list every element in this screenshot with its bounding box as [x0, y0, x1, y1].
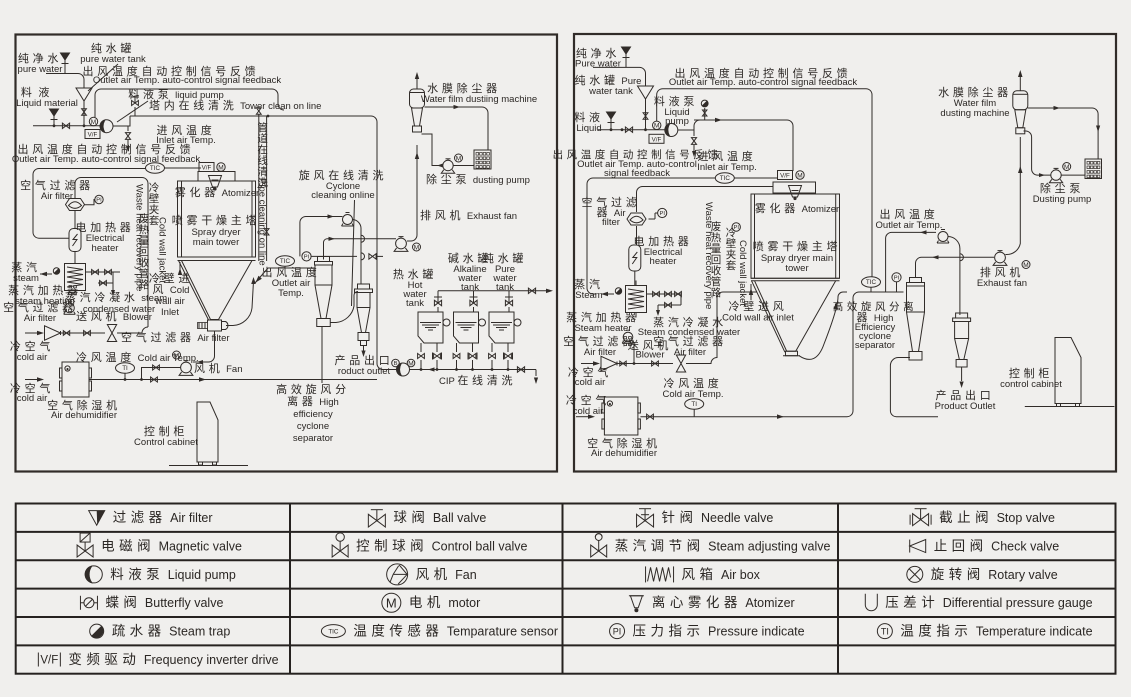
right: atomizer housing	[773, 182, 816, 193]
left diagram frame	[16, 35, 558, 472]
right: TIC	[715, 173, 734, 183]
svg-text:tank: tank	[496, 282, 514, 293]
left: outlet duct to cyclone	[268, 267, 315, 269]
legend: stop valve symbol	[913, 514, 929, 526]
svg-text:温度传感器 Temparature sensor: 温度传感器 Temparature sensor	[353, 623, 558, 639]
svg-text:冷空气: 冷空气	[566, 393, 610, 407]
legend: motor symbol	[382, 593, 401, 612]
legend table frame	[16, 504, 1116, 674]
left: wire pure water to tank	[46, 74, 84, 89]
left: spray tower walls	[178, 181, 256, 257]
left: small cyclone 2	[358, 284, 370, 289]
svg-text:M: M	[1064, 164, 1069, 171]
svg-text:Pipe cleaning on line: Pipe cleaning on line	[257, 178, 268, 266]
svg-text:M: M	[414, 244, 419, 251]
svg-text:Steam heater: Steam heater	[574, 323, 631, 334]
svg-text:roduct outlet: roduct outlet	[338, 366, 391, 377]
right: main feed line	[598, 129, 665, 131]
right: feedback wire to TIC right	[657, 89, 872, 277]
legend: temperature sensor symbol	[321, 625, 345, 638]
svg-text:料液泵: 料液泵	[654, 94, 698, 108]
right: inlet cone filter	[601, 356, 617, 370]
left: cyclone2 lower valve	[361, 341, 367, 346]
right: air line to jacket riser	[686, 292, 757, 364]
left: cleaning pump wires	[300, 217, 343, 257]
left: big cyclone outlet curve to cyclone2	[330, 291, 358, 322]
left: air line to tower riser	[117, 327, 148, 333]
svg-text:排风机 Exhaust fan: 排风机 Exhaust fan	[420, 208, 517, 222]
legend: fan symbol	[387, 564, 408, 585]
svg-text:水膜除尘器: 水膜除尘器	[938, 85, 1012, 99]
svg-text:冷壁进: 冷壁进	[149, 271, 193, 285]
left: steam arrow	[40, 272, 47, 276]
svg-text:pump: pump	[665, 116, 689, 127]
svg-text:TI: TI	[881, 627, 889, 637]
legend: check valve symbol	[909, 540, 911, 553]
svg-text:Air dehumidifier: Air dehumidifier	[51, 410, 117, 421]
svg-text:出风温度: 出风温度	[262, 265, 321, 279]
right: control cabinet	[1055, 338, 1081, 404]
svg-text:冷风温度: 冷风温度	[664, 376, 723, 390]
svg-text:●: ●	[608, 402, 611, 408]
left: blower bowtie	[107, 324, 116, 341]
svg-text:efficiency: efficiency	[293, 409, 333, 420]
left: tower clean line	[130, 116, 383, 370]
right: water film to dust box	[1028, 108, 1098, 159]
right: cleaning pump to cyclone2	[948, 237, 960, 316]
svg-text:M: M	[797, 172, 802, 179]
svg-text:电机 motor: 电机 motor	[409, 595, 480, 610]
svg-text:风机 Fan: 风机 Fan	[416, 567, 477, 582]
svg-text:TIC: TIC	[720, 175, 731, 182]
svg-text:水膜除尘器: 水膜除尘器	[427, 81, 501, 95]
left: leader liquid pump	[117, 101, 148, 122]
right: cyclone bottom pipe	[890, 358, 938, 417]
svg-text:tank: tank	[461, 282, 479, 293]
svg-text:V/F: V/F	[202, 165, 212, 172]
right: water film machine	[1013, 91, 1028, 110]
right: outlet duct to cyclone	[866, 291, 904, 293]
svg-text:Outlet air Temp. auto-control: Outlet air Temp. auto-control signal fee…	[669, 77, 858, 88]
left: CIP pump M	[407, 359, 415, 367]
right: tower bottom plate	[751, 277, 840, 279]
right: cyclone2	[956, 313, 968, 318]
left: PI line to cyclone top	[311, 255, 357, 257]
svg-text:疏水器 Steam trap: 疏水器 Steam trap	[112, 624, 231, 639]
right: riser steam trap stub	[704, 108, 706, 120]
right: atomizer motor	[796, 171, 804, 179]
svg-text:Inlet air Temp.: Inlet air Temp.	[697, 162, 757, 173]
left: TI sensor	[116, 363, 135, 373]
right: cabinet ground	[1025, 406, 1115, 408]
legend: pressure indicate symbol	[610, 624, 625, 639]
svg-text:●: ●	[66, 367, 69, 373]
right: heater	[629, 245, 641, 271]
legend: rotary valve symbol	[907, 566, 923, 582]
svg-text:高效旋风分: 高效旋风分	[276, 382, 350, 396]
right: pump motor	[653, 121, 661, 129]
left: air line to blower	[61, 332, 106, 334]
left: sample valve on clean line	[134, 107, 136, 116]
svg-text:喷雾干燥主塔: 喷雾干燥主塔	[753, 240, 841, 253]
right: exhaust fan	[995, 252, 1006, 263]
right: PI2	[892, 273, 901, 282]
left: tower cone	[182, 261, 253, 320]
svg-text:除尘泵: 除尘泵	[1040, 181, 1084, 195]
svg-text:Liquid: Liquid	[576, 123, 601, 134]
svg-text:M: M	[174, 352, 179, 359]
svg-text:heater: heater	[92, 243, 119, 254]
right: TIC wire right	[734, 177, 777, 179]
left: atomizer housing	[198, 172, 235, 182]
right: dust box wire to pump	[1061, 174, 1085, 176]
svg-text:Outlet air Temp.: Outlet air Temp.	[876, 220, 943, 231]
svg-text:wall air: wall air	[154, 296, 185, 307]
left: atomizer funnel	[209, 176, 222, 188]
svg-text:B: B	[394, 361, 398, 367]
svg-text:离心雾化器 Atomizer: 离心雾化器 Atomizer	[652, 594, 795, 610]
svg-text:控制柜: 控制柜	[144, 424, 188, 438]
right: main cold air line to riser	[640, 292, 866, 417]
svg-text:针阀 Needle valve: 针阀 Needle valve	[662, 510, 774, 525]
svg-text:TI: TI	[691, 401, 697, 408]
left: pump motor M1	[89, 117, 97, 125]
svg-text:进风温度: 进风温度	[698, 149, 757, 163]
svg-text:空气过滤器: 空气过滤器	[563, 334, 637, 348]
svg-text:风 Cold: 风 Cold	[153, 283, 190, 296]
left: big cyclone	[318, 257, 330, 262]
svg-text:冷壁夹套: 冷壁夹套	[726, 226, 737, 272]
legend: temperature indicate symbol	[877, 624, 892, 639]
left: blower pump sym	[65, 303, 75, 313]
svg-text:Air filter: Air filter	[584, 347, 616, 358]
left: rotary to fan pipe	[193, 331, 215, 362]
right: TIC2	[862, 277, 881, 287]
legend: differential pressure gauge symbol	[865, 594, 877, 611]
right: atomizer funnel	[789, 186, 802, 198]
svg-text:heater: heater	[650, 256, 677, 267]
svg-text:压力指示 Pressure indicate: 压力指示 Pressure indicate	[633, 624, 805, 639]
left: liquid feed filter	[50, 109, 59, 116]
right: VF box	[649, 134, 664, 143]
svg-text:PI: PI	[304, 255, 310, 261]
left: hops on cyclone riser	[361, 235, 365, 242]
right: tower walls	[751, 194, 840, 278]
svg-text:雾化器 Atomizer: 雾化器 Atomizer	[755, 201, 839, 215]
right: water film top arrow	[1019, 77, 1021, 91]
svg-text:M: M	[218, 164, 223, 171]
svg-text:料 液: 料 液	[21, 85, 53, 99]
left: dehumidifier	[62, 362, 89, 397]
left: steam trap sym	[53, 268, 59, 274]
right: cyclone cleaning pump	[938, 232, 948, 242]
left: feed valve	[62, 123, 69, 128]
svg-text:风箱 Air box: 风箱 Air box	[682, 567, 761, 582]
right: drain below pump line	[693, 130, 695, 136]
left: duct air filter F1	[66, 199, 85, 211]
right: pure water wire	[593, 67, 646, 86]
right: dusting pump M	[1063, 163, 1071, 171]
svg-text:空气过滤器 Air filter: 空气过滤器 Air filter	[121, 330, 230, 344]
svg-text:蒸汽: 蒸汽	[11, 260, 40, 274]
left: CIP pump	[397, 363, 410, 376]
svg-text:TI: TI	[122, 365, 128, 372]
left: drain valve below pump line	[127, 126, 129, 131]
left: cyclone2 product arrow	[363, 346, 365, 352]
left: water film exhaust arrow	[416, 79, 418, 89]
right: duct air filter	[627, 213, 646, 225]
left: cyclone cleaning pump	[343, 215, 353, 225]
svg-text:Product Outlet: Product Outlet	[935, 401, 996, 412]
svg-text:Temp.: Temp.	[278, 288, 304, 299]
left: TIC wires	[33, 169, 146, 239]
svg-text:冷空气: 冷空气	[10, 339, 54, 353]
svg-text:TIC: TIC	[150, 165, 161, 172]
left: dusting pump	[443, 160, 453, 170]
svg-text:tank: tank	[406, 298, 424, 309]
right: TI	[685, 399, 704, 409]
svg-text:高效旋风分离: 高效旋风分离	[833, 300, 917, 313]
svg-text:dusting machine: dusting machine	[940, 108, 1009, 119]
legend: air filter symbol	[89, 511, 105, 526]
svg-text:cyclone: cyclone	[297, 421, 329, 432]
left: exhaust duct vertical	[416, 145, 418, 235]
left: CIP line	[383, 369, 397, 371]
svg-text:产品出口: 产品出口	[936, 388, 995, 402]
svg-text:M: M	[91, 119, 96, 126]
svg-text:separator: separator	[293, 433, 333, 444]
left: TIC sensor	[146, 163, 165, 173]
svg-text:V/F: V/F	[88, 132, 98, 139]
left: exhaust fan M	[413, 243, 421, 251]
left: cyclone riser to exhaust duct	[324, 239, 397, 260]
left: CIP valve right	[517, 367, 524, 372]
left: dusting box	[474, 150, 491, 169]
svg-text:止回阀 Check valve: 止回阀 Check valve	[934, 538, 1060, 553]
left: main feed line	[33, 125, 100, 127]
svg-text:PI: PI	[894, 276, 900, 282]
left: cleaning leader	[352, 200, 355, 306]
left: valve on PI line	[369, 254, 376, 259]
right: steam trap	[615, 288, 621, 294]
legend: air box symbol	[645, 566, 647, 582]
svg-text:tower: tower	[785, 263, 808, 274]
left: water film to dust box	[425, 107, 489, 150]
legend: steam adjusting valve symbol	[591, 545, 607, 557]
right: PI on filter	[658, 208, 667, 217]
svg-text:排风机: 排风机	[980, 265, 1024, 279]
right: steam valves right	[647, 293, 682, 295]
svg-text:蒸汽调节阀 Steam adjusting valve: 蒸汽调节阀 Steam adjusting valve	[615, 538, 831, 553]
svg-text:Liquid material: Liquid material	[16, 98, 78, 109]
left: dust box to pump wire	[454, 165, 475, 167]
svg-text:电磁阀 Magnetic valve: 电磁阀 Magnetic valve	[101, 538, 242, 553]
svg-text:除尘泵 dusting pump: 除尘泵 dusting pump	[426, 172, 530, 186]
right: cyclone	[910, 278, 922, 283]
svg-text:pure water tank: pure water tank	[80, 54, 146, 65]
svg-text:TIC: TIC	[280, 258, 291, 265]
svg-text:压差计 Differential pressure gaug: 压差计 Differential pressure gauge	[885, 595, 1092, 610]
svg-text:旋风在线清洗: 旋风在线清洗	[299, 168, 387, 182]
svg-text:PI: PI	[733, 225, 739, 231]
legend: butterfly valve symbol	[79, 596, 81, 610]
left: wire filter-heater	[74, 211, 76, 229]
svg-text:M: M	[386, 595, 397, 610]
left: atomizer VF	[199, 163, 214, 172]
left: rotary right arc up	[226, 281, 254, 326]
right: pure water tank funnel	[638, 86, 654, 99]
right: tower flange	[786, 351, 798, 356]
right: steam arrow	[601, 292, 608, 296]
legend: ball valve symbol	[368, 514, 385, 527]
svg-text:M: M	[408, 360, 413, 367]
svg-text:塔内在线清洗 Tower clean on line: 塔内在线清洗 Tower clean on line	[149, 98, 321, 112]
svg-text:PI: PI	[659, 211, 665, 217]
right: cleaning water line	[886, 232, 936, 292]
left: three CIP tanks	[434, 300, 441, 305]
svg-text:空气过滤器: 空气过滤器	[3, 300, 77, 314]
svg-text:Outlet air Temp. auto-control: Outlet air Temp. auto-control signal fee…	[93, 75, 282, 86]
svg-text:PI: PI	[96, 198, 102, 204]
left: main cold air line	[89, 379, 377, 381]
legend: atomizer symbol	[629, 595, 644, 597]
svg-text:旋转阀 Rotary valve: 旋转阀 Rotary valve	[931, 567, 1058, 582]
svg-text:料液: 料液	[574, 110, 603, 124]
left: cold wall arrows	[179, 262, 181, 275]
left: tank header line	[438, 290, 550, 292]
svg-text:cold air: cold air	[575, 377, 606, 388]
svg-text:温度指示 Temperature indicate: 温度指示 Temperature indicate	[900, 624, 1092, 639]
left: atomizer motor	[217, 163, 225, 171]
svg-text:TIC: TIC	[866, 279, 877, 286]
right: dusting pump	[1051, 170, 1061, 180]
svg-text:出风温度: 出风温度	[880, 207, 939, 221]
svg-text:Cold wall air inlet: Cold wall air inlet	[722, 313, 794, 324]
right: dust box	[1085, 159, 1102, 179]
left: steam valves right of coil	[86, 271, 121, 273]
left: downpipe valve	[264, 229, 269, 235]
right: fan to waterfilm riser	[1005, 137, 1020, 255]
svg-text:M: M	[654, 123, 659, 130]
svg-text:控制球阀 Control ball valve: 控制球阀 Control ball valve	[356, 538, 527, 553]
left: PI 2	[302, 252, 311, 261]
left: pump riser to clean line	[113, 116, 130, 126]
svg-text:料液泵 Liquid pump: 料液泵 Liquid pump	[110, 567, 236, 582]
svg-text:Air dehumidifier: Air dehumidifier	[591, 448, 657, 459]
svg-text:Water film dustiing machine: Water film dustiing machine	[421, 94, 537, 105]
svg-text:蝶阀 Butterfly valve: 蝶阀 Butterfly valve	[105, 595, 223, 610]
right: blower pump	[623, 332, 633, 342]
svg-text:cold air: cold air	[17, 352, 48, 363]
svg-text:Steam: Steam	[575, 290, 603, 301]
svg-text:Air filter: Air filter	[24, 313, 56, 324]
right diagram frame	[574, 34, 1116, 472]
svg-text:控制柜: 控制柜	[1009, 366, 1053, 380]
left: leader to funnel	[88, 64, 118, 91]
svg-text:Blower: Blower	[635, 350, 664, 361]
left: inlet cone filter	[45, 326, 61, 340]
svg-text:Dusting pump: Dusting pump	[1033, 194, 1092, 205]
right: air duct to tower top	[637, 187, 774, 213]
left: wire heater down to steam heater	[74, 252, 76, 264]
left: cold air arrow	[25, 332, 38, 334]
right: blower bowtie	[676, 355, 685, 372]
right: product arrow	[961, 367, 963, 382]
legend: magnetic valve symbol	[77, 545, 93, 557]
right: dehumidifier	[604, 397, 638, 435]
svg-text:离器 High: 离器 High	[287, 394, 339, 408]
svg-text:cold air: cold air	[17, 393, 48, 404]
svg-text:V/F: V/F	[40, 655, 58, 667]
left: cyclone leader line	[321, 327, 323, 383]
svg-text:废热量回收管路: 废热量回收管路	[711, 220, 722, 299]
right: conveying curve to duct	[799, 292, 847, 359]
left: clean line valve2	[256, 108, 261, 114]
left: steam heater coil	[65, 264, 86, 291]
right: steam heater coil	[626, 286, 647, 313]
left: CIP pump B	[392, 359, 400, 367]
right: cold wall arrows	[750, 284, 752, 300]
legend: liquid pump symbol	[85, 566, 102, 583]
left: VF drive box	[85, 130, 100, 139]
svg-text:球阀 Ball valve: 球阀 Ball valve	[393, 510, 486, 525]
svg-text:Outlet air Temp. auto-control: Outlet air Temp. auto-control signal fee…	[12, 154, 201, 165]
right: tower cone	[755, 281, 836, 352]
svg-text:V/F: V/F	[652, 136, 662, 143]
svg-text:雾化器 Atomizer: 雾化器 Atomizer	[175, 185, 259, 199]
right: cold air arrow	[581, 363, 594, 365]
left: pipe cleaning downpipe	[258, 114, 260, 261]
svg-text:Inlet: Inlet	[161, 307, 179, 318]
left: tower bottom plate	[178, 256, 256, 258]
left: fan pump	[181, 362, 192, 373]
svg-text:CIP 在线清洗: CIP 在线清洗	[439, 373, 516, 387]
svg-text:M: M	[456, 155, 461, 162]
left: PI on filter	[95, 195, 103, 203]
left: rotary valve at cone tip	[208, 320, 222, 331]
svg-text:产品出口: 产品出口	[335, 353, 394, 367]
legend: control ball valve symbol	[332, 545, 348, 557]
left: water film machine	[410, 89, 425, 108]
left: waste heat recovery pipe	[75, 178, 148, 328]
right: atomizer VF	[778, 171, 793, 180]
legend: frequency inverter drive symbol	[37, 653, 39, 667]
svg-text:TIC: TIC	[328, 628, 339, 635]
right: pump discharge riser	[678, 120, 793, 171]
svg-text:signal feedback: signal feedback	[604, 168, 670, 179]
svg-text:cleaning online: cleaning online	[311, 190, 374, 201]
svg-text:喷雾干燥主塔: 喷雾干燥主塔	[172, 214, 260, 227]
svg-text:Control cabinet: Control cabinet	[134, 437, 198, 448]
svg-text:截止阀 Stop valve: 截止阀 Stop valve	[939, 510, 1055, 525]
left: cabinet ground	[169, 465, 248, 467]
svg-text:separator: separator	[855, 340, 895, 351]
left: liquid pump P1	[100, 120, 113, 133]
right: PI on jacket	[732, 223, 740, 231]
left: exhaust fan pump	[396, 238, 407, 249]
svg-text:PI: PI	[613, 627, 622, 637]
svg-text:送风机 Blower: 送风机 Blower	[76, 309, 152, 323]
svg-text:control cabinet: control cabinet	[1000, 379, 1062, 390]
left: TIC 2	[276, 256, 295, 266]
svg-text:纯净水: 纯净水	[18, 51, 62, 65]
svg-text:filter: filter	[602, 217, 620, 228]
svg-text:蒸汽加热器: 蒸汽加热器	[566, 310, 640, 324]
svg-text:过滤器 Air filter: 过滤器 Air filter	[113, 510, 213, 525]
svg-text:Exhaust fan: Exhaust fan	[977, 278, 1027, 289]
left: heater E1	[69, 229, 81, 252]
left: pure water feed filter	[61, 53, 70, 60]
